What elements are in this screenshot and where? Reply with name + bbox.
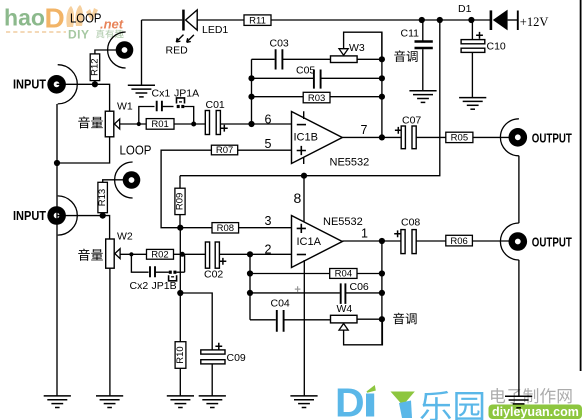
svg-text:R06: R06: [450, 236, 467, 247]
label tone (top): [394, 50, 405, 62]
svg-text:R04: R04: [335, 269, 352, 280]
wire C11 to ground: [422, 49, 424, 91]
svg-text:R03: R03: [308, 93, 325, 104]
wire IC1A pin 4 to ground: [303, 260, 305, 396]
wire +12V rail to C11: [422, 20, 424, 41]
wire INPUT1 shield arc-gap note none: [0, 0, 1, 1]
capacitor C08: [401, 230, 416, 254]
capacitor C07 polarity +: [395, 127, 402, 134]
wire C08 to R06: [416, 240, 446, 242]
svg-text:C06: C06: [350, 281, 369, 293]
svg-text:R05: R05: [451, 133, 468, 144]
wire C06 to rail: [345, 292, 382, 294]
wire R10 to ground: [179, 368, 181, 396]
watermark DIY leyuan logo (decorative): [335, 380, 582, 420]
capacitor C03: [276, 49, 283, 69]
connector INPUT jack 1: [47, 65, 77, 104]
svg-text:W4: W4: [337, 303, 353, 315]
resistor R04: [330, 269, 357, 280]
svg-text:.net: .net: [100, 17, 124, 32]
resistor R10: [175, 342, 186, 369]
potentiometer W2: [106, 239, 120, 268]
node R01/C01/JP1A junction: [191, 122, 196, 127]
svg-text:C02: C02: [204, 268, 223, 280]
svg-text:C04: C04: [271, 298, 290, 310]
wire R08 to IC1A pin 3: [239, 227, 292, 229]
wire row R04 left: [250, 273, 330, 275]
wire Cx1 branch: [139, 107, 155, 125]
wire W3 wiper loop: [344, 32, 382, 59]
node rail2 right row C: [379, 316, 385, 322]
svg-text:1: 1: [361, 227, 368, 241]
wire LOOP1 to R12: [95, 50, 116, 54]
wire JP1B to corner: [184, 254, 186, 272]
node Cx1 branch tap: [137, 122, 141, 126]
ground below C11: [409, 91, 436, 103]
svg-text:D1: D1: [458, 3, 472, 15]
wire JP1A to node: [184, 107, 193, 125]
svg-text:C07: C07: [402, 115, 421, 127]
wire JP1B stub: [177, 271, 185, 273]
resistor R09: [175, 188, 186, 214]
wire W1 bottom to ground rail: [57, 137, 110, 163]
svg-text:RED: RED: [166, 45, 189, 57]
capacitor C11: [415, 42, 433, 49]
svg-text:DIY: DIY: [68, 28, 90, 42]
capacitor C01 polarity +: [221, 125, 228, 132]
connector INPUT jack 2: [47, 196, 77, 235]
svg-text:LED1: LED1: [202, 24, 228, 36]
ground bottom right (output shield): [505, 396, 532, 408]
watermark haoDIY.net logo (decorative): [4, 3, 124, 42]
wire W4 wiper loop: [344, 319, 383, 345]
node ground rail / W1 return: [54, 160, 60, 166]
connector LOOP jack 2: [115, 162, 141, 198]
wire C10 to ground: [471, 52, 473, 97]
LED D LED1: [182, 10, 197, 31]
potentiometer W4: [331, 315, 358, 330]
wire bias node to R08: [180, 227, 212, 229]
wire IC1B pin 7 output: [342, 136, 382, 138]
svg-text:C11: C11: [401, 28, 420, 40]
svg-text:C10: C10: [487, 41, 506, 53]
svg-text:R01: R01: [151, 119, 168, 130]
resistor R12: [90, 54, 101, 81]
potentiometer W3: [331, 49, 358, 63]
wire row C05: [252, 77, 314, 79]
node rail2 right row B: [379, 290, 385, 296]
connector OUTPUT jack 1: [500, 119, 527, 156]
svg-text:C05: C05: [296, 65, 315, 77]
capacitor C04: [277, 310, 284, 332]
ground below R10: [167, 396, 194, 408]
wire Cx2 branch: [131, 254, 148, 272]
svg-text:diyleyuan.com: diyleyuan.com: [492, 405, 579, 419]
label volume (channel 1): [78, 116, 90, 128]
wire C01 to IC1B pin 6: [220, 123, 291, 125]
node R12/input1 junction: [92, 81, 98, 87]
wire supply to R09: [179, 176, 181, 189]
resistor R13: [97, 182, 108, 212]
node pin 1 output junction: [379, 238, 385, 244]
node rail2 right row A: [379, 270, 385, 276]
svg-text:8: 8: [294, 190, 302, 206]
wire W2 bottom to ground: [109, 268, 111, 396]
svg-text:INPUT: INPUT: [13, 77, 46, 92]
capacitor C01: [205, 111, 220, 135]
wire LED1 to R11: [197, 19, 244, 21]
wire Cx1 to JP1A: [162, 106, 174, 108]
resistor R11: [244, 15, 271, 26]
wire W4 to rail: [357, 318, 382, 320]
svg-text:LOOP: LOOP: [120, 144, 152, 158]
ground below IC1A: [290, 396, 317, 408]
op-amp IC1A: [292, 216, 343, 268]
wire rail2 right: [381, 241, 383, 345]
node R02/C02/node-line junction: [180, 252, 185, 257]
capacitor Cx2: [150, 266, 155, 277]
ground below C10: [459, 98, 486, 110]
wire R07 to bias node: [161, 150, 211, 228]
wire R06 to OUTPUT2: [472, 240, 509, 242]
wire C05 to rail: [321, 77, 382, 79]
svg-text:IC1B: IC1B: [294, 132, 318, 144]
wire tone rail left (top): [251, 59, 253, 124]
wire R04 to rail: [357, 273, 382, 275]
capacitor C05: [314, 70, 321, 89]
resistor R06: [446, 235, 473, 247]
svg-text:C09: C09: [227, 352, 246, 364]
capacitor C09: [201, 350, 225, 364]
svg-text:W3: W3: [349, 42, 365, 54]
capacitor C08 polarity +: [394, 230, 401, 237]
wire output shield to ground: [518, 260, 520, 396]
diode D1: [490, 10, 508, 31]
wire rail2 left: [249, 254, 251, 319]
svg-text:INPUT: INPUT: [13, 208, 46, 223]
svg-text:IC1A: IC1A: [297, 236, 322, 248]
op-amp IC1B: [292, 111, 343, 164]
wire INPUT1 to W1 top: [57, 84, 110, 111]
node C11 tap: [419, 17, 425, 23]
wire LOOP2 to R13: [103, 180, 123, 183]
wire R09 to bias node: [179, 215, 181, 228]
node tone rail left row C: [248, 94, 254, 100]
wire supply to IC1A pin 8: [303, 176, 305, 224]
svg-text:3: 3: [265, 214, 272, 228]
svg-text:D: D: [335, 380, 365, 420]
capacitor C02 polarity +: [220, 258, 227, 265]
svg-text:5: 5: [265, 137, 272, 151]
svg-text:R13: R13: [97, 189, 108, 206]
jumper JP1B: [169, 271, 177, 281]
wire C02 to IC1A pin 2: [219, 253, 291, 255]
capacitor C10: [461, 40, 485, 53]
wire +12V rail down to op-amp supply row: [180, 20, 440, 176]
ground bottom left (input shield): [44, 396, 71, 408]
wire R02 to node line: [174, 253, 181, 255]
wire R13 to input2 node: [102, 213, 104, 216]
node rail2 left row A: [247, 270, 253, 276]
wire C09 branch: [180, 293, 212, 350]
svg-text:hao: hao: [4, 5, 45, 31]
svg-text:7: 7: [361, 123, 368, 137]
wire W2 wiper to R02: [120, 253, 146, 255]
label tone (bottom): [393, 313, 404, 325]
node pin2 rail junction: [247, 251, 253, 257]
ground below W2: [96, 396, 123, 408]
connector LOOP jack 1: [108, 32, 134, 68]
svg-text:R02: R02: [151, 250, 168, 261]
node tone rail right row C: [379, 94, 385, 100]
node C09 branch junction: [177, 290, 183, 296]
svg-text:Cx2: Cx2: [130, 280, 149, 292]
wire R12 to input node: [94, 81, 96, 85]
wire D1 to +12V terminal: [508, 19, 518, 21]
svg-text:LOOP: LOOP: [70, 12, 102, 26]
svg-text:W1: W1: [117, 101, 133, 113]
wire row C04: [250, 319, 276, 321]
wire R05 to OUTPUT1: [473, 136, 509, 138]
LED1 light arrows: [176, 35, 194, 43]
node rail2 left row B: [247, 290, 253, 296]
svg-text:R07: R07: [216, 145, 233, 156]
svg-text:R12: R12: [90, 58, 101, 75]
svg-text:NE5532: NE5532: [323, 216, 363, 228]
connector OUTPUT jack 2: [500, 223, 527, 260]
wire pin7 node to C07: [382, 136, 401, 138]
svg-text:OUTPUT: OUTPUT: [532, 235, 572, 250]
wire node to C02: [185, 253, 206, 255]
capacitor C10 polarity +: [476, 32, 483, 39]
svg-text:+12V: +12V: [520, 15, 549, 29]
node pin8 supply junction: [301, 173, 307, 179]
jumper JP1A: [177, 98, 185, 108]
node tone rail right row A: [379, 56, 385, 62]
capacitor C06: [341, 283, 346, 304]
wire output shield link: [518, 156, 520, 223]
wire R07 to IC1B pin 5: [238, 149, 292, 151]
resistor R08: [212, 223, 239, 234]
svg-text:R09: R09: [175, 193, 186, 210]
label volume (channel 2): [78, 249, 90, 261]
svg-text:C08: C08: [401, 217, 420, 229]
wire bias node line down: [179, 228, 181, 342]
svg-text:C03: C03: [270, 38, 289, 50]
resistor R03: [303, 92, 330, 104]
wire row C06 left: [250, 292, 340, 294]
+12V terminal tick: [517, 11, 519, 31]
wire IC1A pin 1 output: [342, 240, 382, 242]
resistor R07: [211, 145, 237, 156]
svg-text:R11: R11: [249, 15, 266, 26]
node supply-drop tap: [437, 17, 443, 23]
node R13/input2 junction: [100, 213, 106, 219]
node tone rail left bottom: [248, 121, 254, 127]
wire C04 to W4: [284, 319, 331, 321]
wire +12V rail to C10: [471, 20, 473, 40]
svg-text:JP1A: JP1A: [174, 88, 199, 100]
svg-text:R10: R10: [175, 346, 186, 363]
node bias divider junction: [177, 225, 183, 231]
node tone rail right row B: [379, 75, 385, 81]
svg-text:C01: C01: [206, 99, 225, 111]
wire R03 to rail: [330, 96, 382, 98]
capacitor C02: [205, 242, 219, 268]
svg-text:OUTPUT: OUTPUT: [532, 130, 572, 145]
wire row C03/W3: [252, 58, 275, 60]
wire Cx2 to JP1B: [155, 271, 169, 273]
node Cx2 branch tap: [129, 252, 133, 256]
faint polarity mark: [295, 286, 301, 292]
svg-text:2: 2: [265, 243, 272, 257]
capacitor Cx1: [157, 101, 162, 112]
ground rail left: [56, 104, 58, 396]
potentiometer W1: [105, 111, 119, 137]
svg-text:W2: W2: [117, 231, 133, 243]
svg-text:Cx1: Cx1: [152, 88, 171, 100]
wire R01 to C01: [174, 123, 205, 125]
wire pin1 node to C08: [382, 240, 401, 242]
node tone rail left row B: [248, 75, 254, 81]
node D1 cathode junction: [468, 17, 474, 23]
capacitor C09 polarity +: [215, 343, 222, 350]
wire C09 to ground: [211, 364, 213, 396]
resistor R02: [147, 249, 174, 260]
wire row R03 left: [252, 96, 304, 98]
node pin 7 output junction: [379, 134, 385, 140]
wire W3 to tone rail right: [357, 58, 382, 60]
svg-text:6: 6: [265, 113, 272, 127]
ground top-left (LED cathode return): [128, 20, 155, 97]
ground below C09: [199, 396, 226, 408]
wire INPUT2 to W2 top: [57, 216, 110, 239]
wire W1 wiper to R01: [120, 123, 146, 125]
svg-text:R08: R08: [217, 223, 234, 234]
capacitor C07: [401, 126, 416, 149]
resistor R05: [446, 132, 473, 143]
svg-text:NE5532: NE5532: [330, 157, 370, 169]
border line right edge: [580, 0, 582, 371]
svg-text:D: D: [45, 3, 65, 34]
wire C07 to R05: [416, 136, 446, 138]
svg-text:JP1B: JP1B: [152, 280, 177, 292]
wire R11 to D1: [271, 19, 490, 21]
wire C03 to W3: [282, 58, 330, 60]
wire tone rail right (top): [381, 32, 383, 137]
wire top +12V rail segment from ground corner to LED1: [142, 19, 183, 21]
resistor R01: [146, 119, 174, 131]
